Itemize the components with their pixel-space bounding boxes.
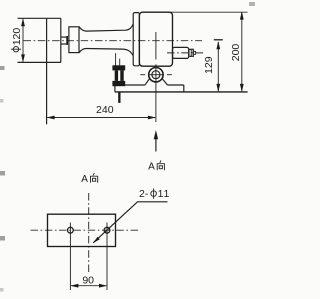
output shaft step seam <box>190 49 192 56</box>
gearbox front flange <box>133 13 139 66</box>
clamp bolt short stem <box>119 59 121 66</box>
svg-text:240: 240 <box>96 104 114 116</box>
shaft collar <box>69 27 79 53</box>
horn housing top profile <box>79 24 133 31</box>
mounting plate <box>48 214 116 246</box>
glyph xiang (view arrow) <box>157 160 165 170</box>
dim 129 arrow down <box>216 84 220 92</box>
output shaft centerline <box>167 52 205 54</box>
trunnion right leg <box>162 79 167 85</box>
trunnion horizontal centerline right dash <box>167 74 172 76</box>
horn housing bottom profile <box>79 49 133 56</box>
clamp bolt tail below base <box>118 92 120 103</box>
clamp bolt foot <box>112 81 125 86</box>
disc top edge / extension line <box>18 17 61 19</box>
trunnion horizontal centerline through circle <box>148 74 164 76</box>
svg-text:90: 90 <box>82 275 94 287</box>
trunnion inner circle <box>152 71 160 79</box>
clamp bolt shank right bar <box>120 70 123 81</box>
view A arrow <box>154 130 158 139</box>
disc bottom edge / extension line <box>18 61 61 63</box>
base top edge right segment <box>168 84 184 86</box>
dim 200 arrow up <box>240 11 244 19</box>
scan smudge left edge 5 <box>0 288 4 292</box>
trunnion horizontal centerline left dash <box>140 74 145 76</box>
base bottom edge + extension line to 200 dim <box>115 91 248 93</box>
arrow down (phi120 bottom) <box>21 54 25 62</box>
svg-text:129: 129 <box>203 56 215 74</box>
dimension line phi-120 <box>22 19 24 62</box>
clamp bolt nut <box>112 65 125 70</box>
label phi-120 (rotated) <box>11 28 23 52</box>
leader arrowhead <box>93 237 100 244</box>
scan smudge left edge 4 <box>0 236 5 241</box>
svg-text:11: 11 <box>158 188 171 200</box>
svg-text:200: 200 <box>230 44 242 62</box>
label 2-phi11 <box>139 188 170 200</box>
hub stub top line <box>61 36 67 38</box>
base top edge left segment <box>115 84 145 86</box>
svg-text:2-: 2- <box>139 188 149 200</box>
label 200 (rotated) <box>230 44 242 62</box>
leader line 2-phi11 <box>93 202 167 243</box>
dim 240 line <box>47 117 155 119</box>
trunnion vertical centerline lower segment <box>155 64 157 122</box>
output shaft <box>173 47 189 58</box>
scan smudge top right <box>249 2 255 6</box>
dim 129 arrow up <box>216 41 220 49</box>
dim 90 line <box>71 285 106 287</box>
dim 90 arrow right <box>99 284 107 288</box>
right hole extension line <box>106 223 108 291</box>
hole right <box>104 227 110 233</box>
base right step <box>183 85 185 92</box>
scan smudge left edge 1 <box>0 66 5 70</box>
hub stub bottom line <box>61 43 67 45</box>
main centerline (horizontal dash-dot axis) <box>24 40 203 42</box>
label 129 (rotated) <box>203 56 215 74</box>
arrow up (phi120 top) <box>21 18 25 26</box>
svg-text:A: A <box>81 174 88 185</box>
output shaft step <box>189 49 194 56</box>
hole left <box>68 227 74 233</box>
hub stub end cap <box>66 36 68 45</box>
svg-text:120: 120 <box>11 28 23 46</box>
handwheel disc (phi-120) left edge + 240 extension line <box>46 18 48 124</box>
dim 200 line <box>241 13 243 91</box>
trunnion outer circle <box>149 68 163 82</box>
trunnion vertical centerline upper segment <box>155 32 157 60</box>
dim 240 arrow right <box>148 116 156 120</box>
clamp bolt shank left bar <box>115 70 118 81</box>
dim 129 centerline tick <box>214 39 223 41</box>
glyph xiang (bottom view title) <box>90 173 98 183</box>
svg-text:A: A <box>148 162 155 173</box>
handwheel disc right edge <box>60 18 62 62</box>
dim 129 line <box>217 42 219 91</box>
output shaft tip <box>193 51 195 54</box>
gearbox body <box>139 12 172 66</box>
dim 240 arrow left <box>47 116 55 120</box>
dim 200 top extension line <box>169 11 248 13</box>
base left end <box>114 85 116 92</box>
dim 200 arrow down <box>240 84 244 92</box>
scan smudge left edge 3 <box>0 171 5 176</box>
trunnion left leg <box>145 79 150 85</box>
clamp bolt long stem <box>115 53 117 65</box>
scan smudge left edge 2 <box>0 99 4 103</box>
left hole extension line <box>69 223 71 291</box>
dim 90 arrow left <box>70 284 78 288</box>
plate vertical centerline <box>88 193 90 274</box>
plate horizontal centerline <box>31 229 139 231</box>
